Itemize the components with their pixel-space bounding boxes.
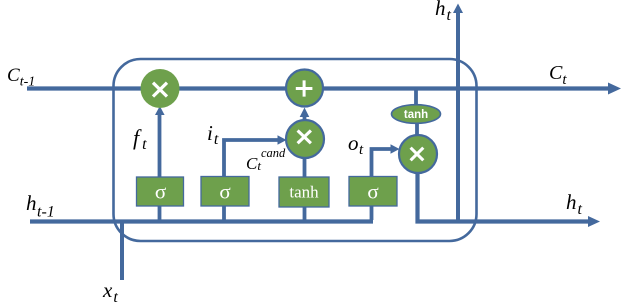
svg-text:σ: σ [219, 180, 230, 204]
wire C line down to tanh ellipse [414, 89, 418, 107]
wire tanh box down to h line [303, 206, 307, 220]
svg-text:tanh: tanh [289, 183, 319, 202]
sigma box 1 (forget gate) [137, 177, 184, 206]
wire sigma3 box down to h line [370, 206, 374, 220]
gate circle X3 (output multiply) [399, 135, 437, 173]
tanh ellipse (output squash) [392, 105, 441, 124]
tanh box (candidate) [279, 177, 329, 207]
wire forget-gate stem with up arrow into X1 [155, 106, 165, 177]
wire candidate stem (tanh box up to X2) [303, 156, 307, 177]
wire h(t) output up arrow (vertical, to top) [453, 4, 463, 222]
svg-text:σ: σ [367, 180, 378, 204]
wire output-gate elbow with right arrow into X3 [372, 144, 400, 177]
sigma box 3 (output gate) [349, 177, 397, 207]
wire x(t) input stem [120, 222, 124, 281]
wire sigma1 box down to h line [158, 206, 162, 220]
svg-text:σ: σ [155, 180, 166, 204]
wire sigma2 box down to h line [222, 206, 226, 220]
wire cell-state line C (horizontal, top) [27, 83, 621, 95]
wire tanh ellipse down to X3 [415, 123, 419, 137]
gate circle X2 (input multiply) [286, 120, 324, 158]
svg-text:tanh: tanh [404, 109, 428, 121]
wire h(t) output line (down from output gate, then right with arrow) [418, 170, 601, 227]
LSTM cell boundary (rounded rectangle) [114, 59, 477, 241]
gate circle X1 (forget multiply) [141, 69, 180, 108]
sigma box 2 (input gate) [201, 177, 249, 207]
wire input-gate elbow with right arrow into X2 [224, 135, 287, 177]
gate circle plus (cell-state add) [286, 70, 323, 107]
wire X2 up arrow into plus [300, 108, 310, 124]
wire h(t-1) input line (horizontal, bottom-left) [30, 219, 373, 223]
